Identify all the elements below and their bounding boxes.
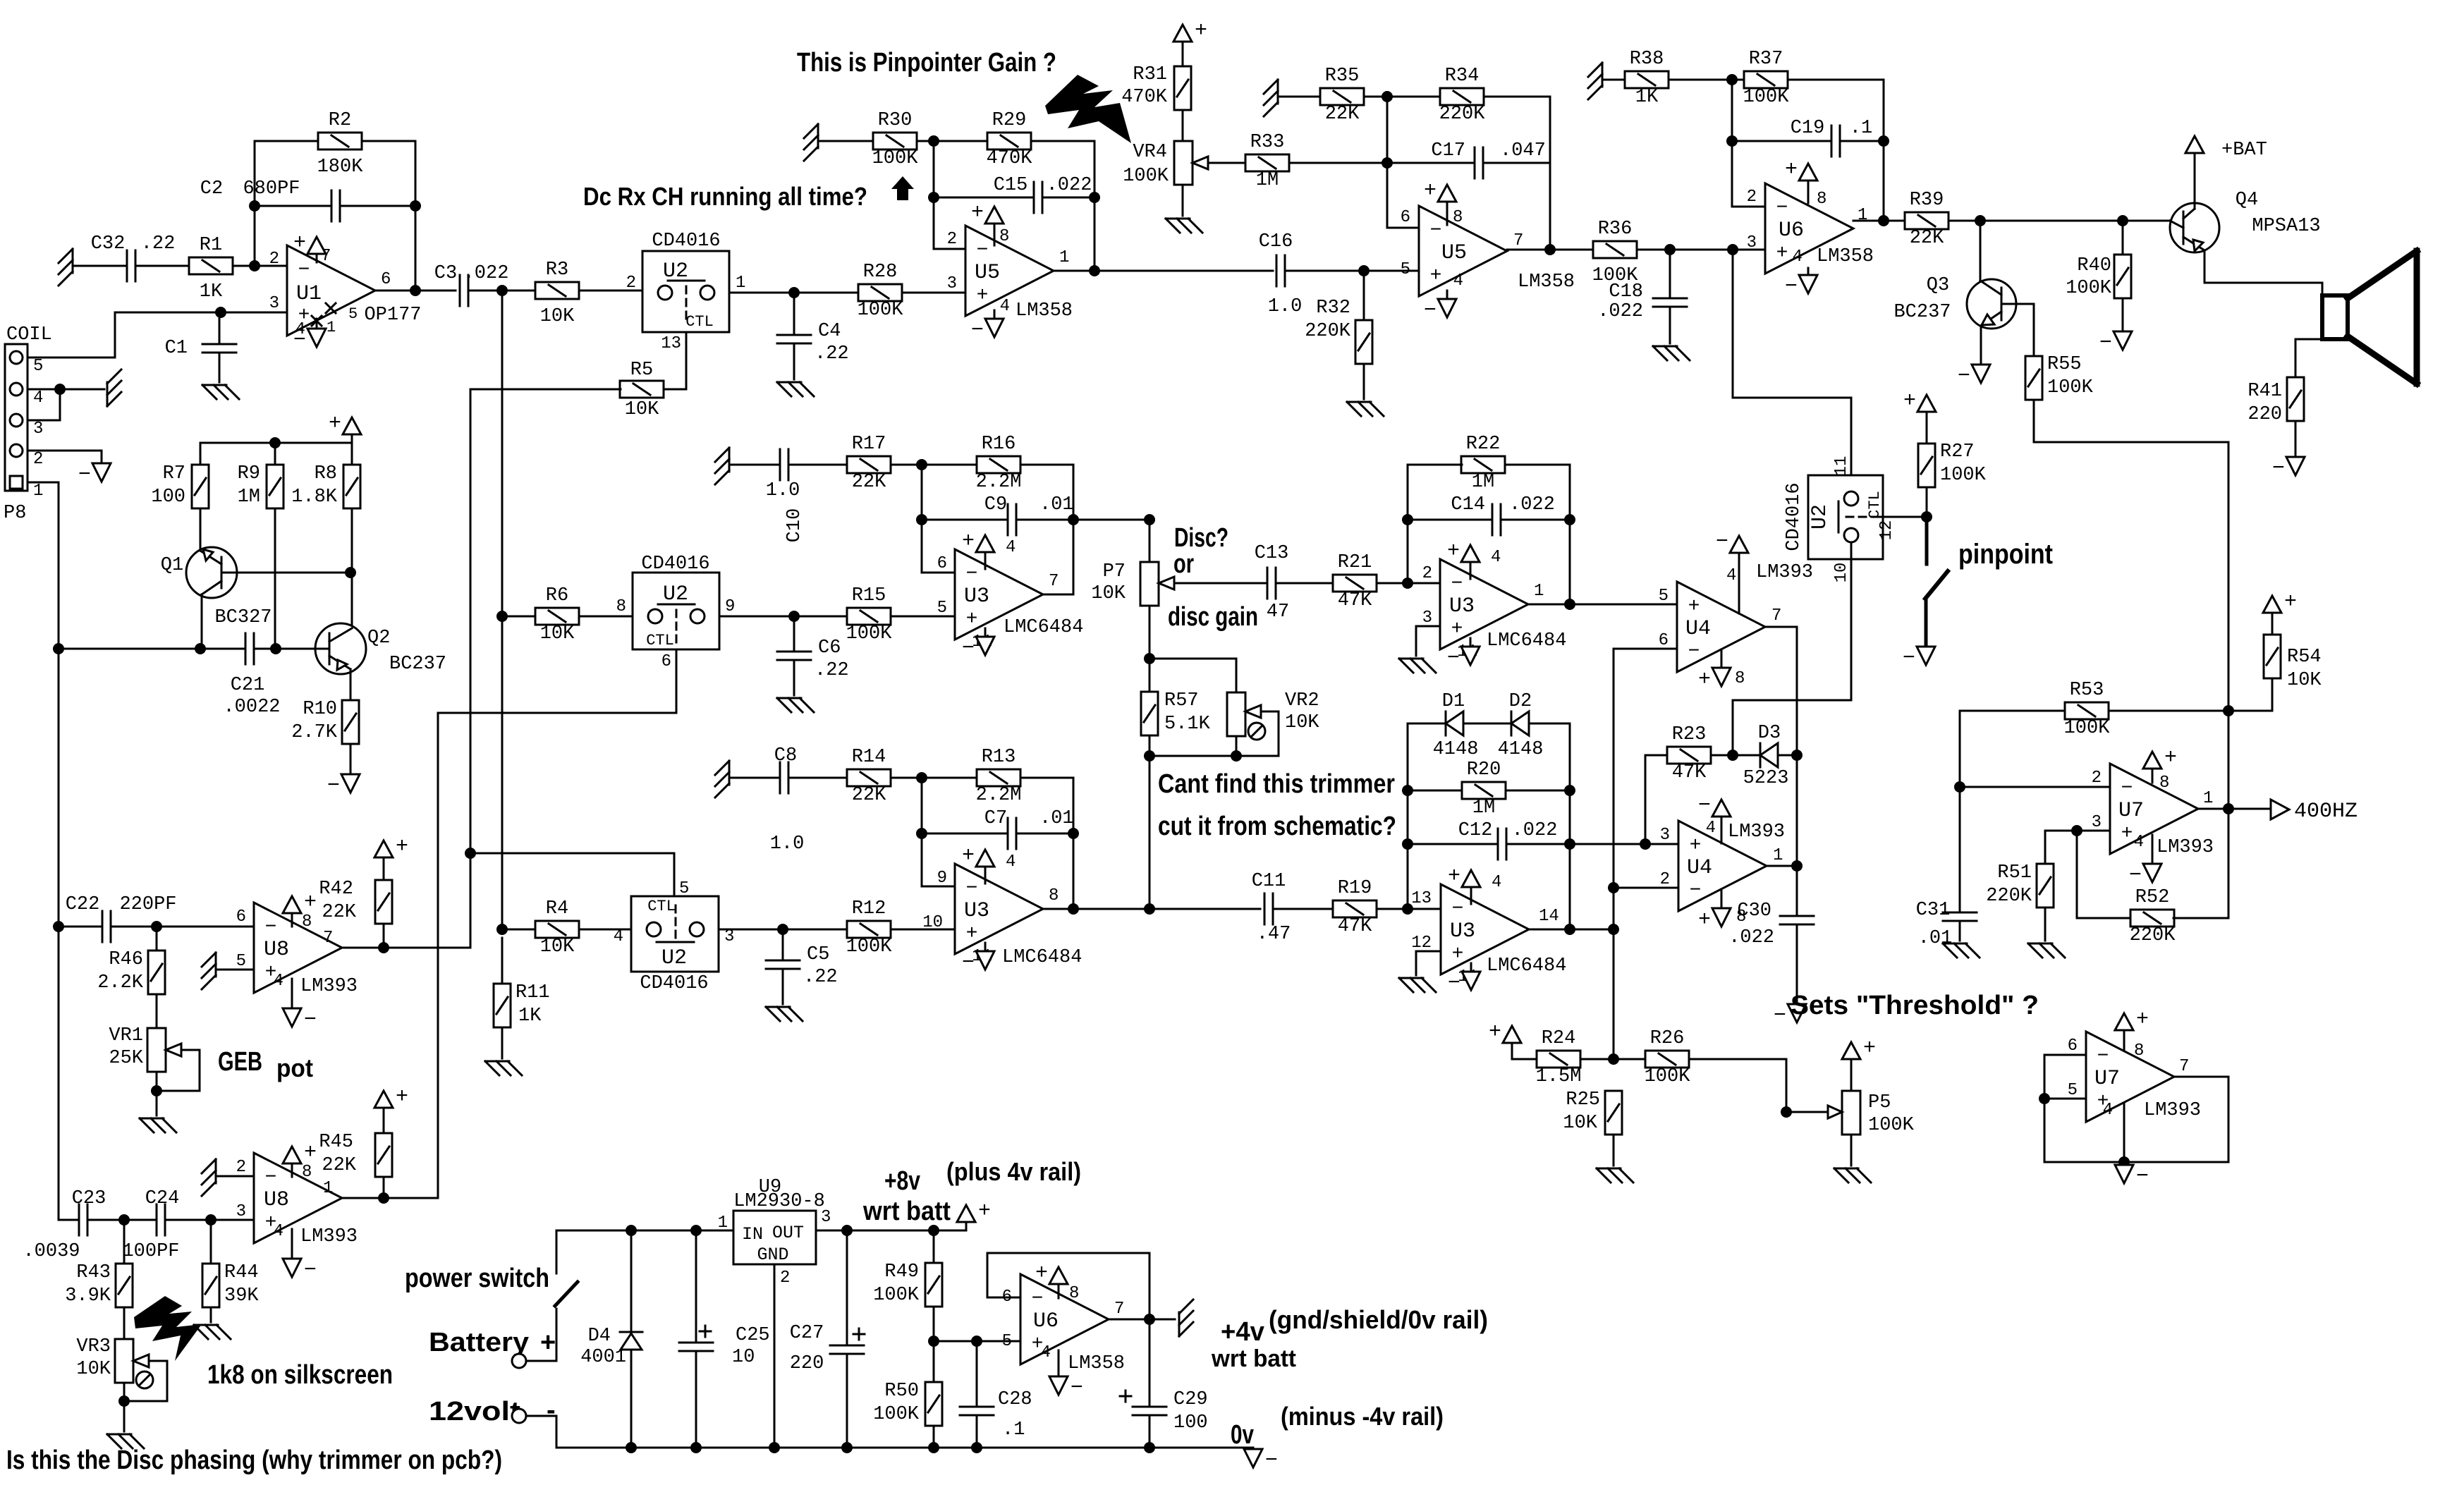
wire R49 bottom lead bbox=[933, 1307, 935, 1341]
svg-text:100K: 100K bbox=[1123, 166, 1169, 187]
svg-text:U6: U6 bbox=[1779, 219, 1804, 243]
svg-text:R12: R12 bbox=[852, 898, 886, 919]
resistor R52 bbox=[2130, 887, 2176, 946]
svg-text:D4: D4 bbox=[588, 1326, 611, 1347]
svg-text:−: − bbox=[1451, 573, 1463, 595]
wire R42 top bbox=[383, 857, 385, 880]
svg-text:R27: R27 bbox=[1940, 441, 1975, 463]
wire D3 to out col bbox=[1778, 754, 1797, 757]
resistor R54 bbox=[2264, 635, 2322, 691]
ground R38 bbox=[1588, 63, 1602, 99]
wire R4 left bbox=[502, 929, 535, 931]
power - U5a bbox=[971, 319, 1004, 343]
wire C1 top bbox=[219, 312, 221, 344]
svg-text:GND: GND bbox=[757, 1245, 788, 1265]
node C18 tap bbox=[1664, 244, 1676, 255]
svg-text:10K: 10K bbox=[76, 1359, 111, 1380]
node ctl rail branch bbox=[465, 848, 476, 859]
wire U7b pin4 stem bbox=[2123, 1104, 2125, 1162]
svg-text:+: + bbox=[966, 923, 978, 945]
svg-text:4: 4 bbox=[1000, 297, 1010, 316]
resistor R10 bbox=[291, 699, 359, 744]
wire switch to rail bbox=[556, 1230, 631, 1273]
wire C18 top bbox=[1669, 250, 1671, 298]
svg-text:5: 5 bbox=[33, 357, 43, 376]
svg-text:C27: C27 bbox=[790, 1323, 824, 1344]
wire U1 pin4 bbox=[316, 319, 318, 329]
power - 0v rail bbox=[1244, 1449, 1278, 1473]
svg-text:8: 8 bbox=[1049, 886, 1059, 905]
svg-text:Q4: Q4 bbox=[2236, 190, 2258, 211]
wire R45 bottom bbox=[383, 1177, 385, 1198]
transistor Q4 MPSA13 bbox=[2170, 190, 2321, 283]
wire base node to Q2 coll bbox=[351, 573, 353, 628]
svg-text:12volt: 12volt bbox=[429, 1397, 520, 1426]
wire R33 to fb node bbox=[1289, 162, 1387, 164]
node C7 left bbox=[916, 828, 927, 839]
ground C31 bbox=[1943, 943, 1980, 958]
annotation 12volt bbox=[429, 1395, 556, 1426]
ground R11 bbox=[485, 1061, 522, 1075]
wire U4b pin8 bbox=[1721, 889, 1723, 908]
svg-text:+: + bbox=[978, 1199, 991, 1223]
svg-text:5: 5 bbox=[2068, 1081, 2078, 1100]
wire R20 left lead bbox=[1408, 790, 1462, 792]
node Q3 coll bbox=[1975, 215, 1986, 226]
wire R46 top bbox=[156, 927, 158, 951]
wire U7b in+ bbox=[2044, 1098, 2086, 1100]
svg-text:D1: D1 bbox=[1442, 691, 1465, 712]
wire C9 right bbox=[1016, 519, 1073, 521]
resistor R7 bbox=[151, 463, 209, 508]
wire D row right bbox=[1529, 723, 1570, 725]
wire U5b in+ wire bbox=[1364, 270, 1419, 272]
svg-text:U3: U3 bbox=[1450, 919, 1475, 943]
op-amp U6 bbox=[1747, 183, 1874, 274]
node VR2 bottom bbox=[1231, 750, 1242, 762]
svg-text:−: − bbox=[1071, 1376, 1083, 1400]
svg-text:−: − bbox=[1774, 1004, 1786, 1028]
svg-text:6: 6 bbox=[2068, 1037, 2078, 1056]
svg-text:C29: C29 bbox=[1173, 1389, 1208, 1410]
node C19 right bbox=[1878, 135, 1889, 147]
svg-text:4: 4 bbox=[1492, 873, 1501, 892]
wire R17 to R16 bbox=[891, 464, 977, 466]
node C25 bottom bbox=[690, 1442, 702, 1453]
svg-text:R42: R42 bbox=[319, 879, 353, 900]
wire U6a pin4 bbox=[1807, 268, 1810, 275]
wire R35 to R34 bbox=[1364, 96, 1440, 98]
wire R39 to Q4 base bbox=[1948, 220, 2170, 222]
wire U3a out bbox=[1043, 594, 1073, 596]
wire R16 right bbox=[1020, 465, 1073, 594]
trimmer VR3 bbox=[76, 1336, 153, 1388]
svg-text:Cant find this trimmer: Cant find this trimmer bbox=[1158, 769, 1395, 799]
wire threshold col x2288 bbox=[1613, 649, 1615, 1059]
resistor R28 bbox=[858, 262, 904, 321]
svg-text:6: 6 bbox=[937, 554, 947, 573]
annotation gnd shield bbox=[1269, 1305, 1488, 1334]
wire R40 bottom bbox=[2122, 298, 2124, 331]
svg-text:+: + bbox=[1489, 1020, 1501, 1044]
svg-text:1: 1 bbox=[33, 482, 43, 501]
wire R43 top bbox=[123, 1220, 126, 1264]
wire R44 bottom bbox=[210, 1307, 212, 1322]
svg-text:1.0: 1.0 bbox=[770, 833, 805, 855]
svg-text:10K: 10K bbox=[1285, 712, 1319, 733]
svg-text:−: − bbox=[1776, 197, 1788, 219]
svg-text:10: 10 bbox=[732, 1347, 755, 1368]
svg-text:.01: .01 bbox=[1039, 808, 1074, 829]
node R35/R34/C17 bbox=[1382, 91, 1393, 102]
svg-text:LM358: LM358 bbox=[1016, 300, 1073, 322]
resistor R49 bbox=[873, 1261, 942, 1307]
wire C31 bottom bbox=[1959, 921, 1961, 941]
trimmer VR4 bbox=[1123, 141, 1208, 187]
capacitor C28 bbox=[960, 1389, 1032, 1441]
svg-text:100K: 100K bbox=[1743, 87, 1790, 108]
node U9 gnd bottom bbox=[769, 1442, 780, 1453]
svg-text:+: + bbox=[2164, 746, 2177, 770]
svg-text:wrt batt: wrt batt bbox=[1211, 1345, 1296, 1372]
svg-text:7: 7 bbox=[1114, 1300, 1124, 1319]
wire COIL pin1 TX rail bbox=[28, 482, 59, 649]
wire C19 left lead bbox=[1732, 140, 1831, 142]
svg-text:R10: R10 bbox=[303, 699, 337, 720]
svg-text:+: + bbox=[396, 835, 408, 859]
svg-text:power switch: power switch bbox=[405, 1264, 549, 1293]
svg-text:4: 4 bbox=[274, 972, 283, 991]
resistor R8 bbox=[291, 463, 360, 508]
ground C32 bbox=[59, 249, 73, 286]
capacitor C23 bbox=[23, 1188, 106, 1262]
resistor R43 bbox=[65, 1262, 133, 1307]
power - U3c bbox=[962, 951, 994, 975]
wire Q4 collector bbox=[2194, 153, 2196, 204]
wire U9 gnd bbox=[774, 1264, 776, 1448]
node R57 top bbox=[1144, 653, 1155, 664]
wire R7 to Q1 bbox=[200, 508, 202, 548]
node R27/pinpoint bbox=[1921, 511, 1932, 522]
wire P5 bottom bbox=[1850, 1135, 1853, 1166]
svg-text:100: 100 bbox=[151, 487, 185, 508]
node C3/R3/feedback bbox=[496, 285, 508, 296]
wire U3d pin4 bbox=[1470, 887, 1472, 904]
capacitor C17 bbox=[1431, 140, 1545, 178]
wire C12 right lead bbox=[1506, 843, 1570, 845]
resistor R35 bbox=[1320, 66, 1364, 125]
svg-text:LMC6484: LMC6484 bbox=[1487, 630, 1566, 652]
wire U4b pin4 bbox=[1721, 817, 1723, 843]
resistor R21 bbox=[1333, 552, 1377, 611]
capacitor C10 bbox=[766, 449, 800, 501]
svg-text:10: 10 bbox=[1832, 563, 1851, 583]
node R17/R16/fbcol bbox=[916, 459, 927, 470]
node TX rail / C22 bbox=[53, 921, 64, 932]
wire U7a pin4 bbox=[2152, 835, 2154, 864]
annotation plus4v bbox=[946, 1157, 1081, 1186]
resistor R30 bbox=[872, 110, 919, 169]
svg-text:C15: C15 bbox=[994, 175, 1028, 196]
svg-text:C22: C22 bbox=[66, 894, 100, 915]
resistor R50 bbox=[873, 1381, 942, 1426]
power + U1 bbox=[293, 231, 326, 255]
svg-text:P5: P5 bbox=[1868, 1092, 1891, 1113]
svg-text:(minus -4v rail): (minus -4v rail) bbox=[1281, 1402, 1444, 1431]
power - U1 bbox=[293, 329, 326, 353]
wire U2a ctl stub bbox=[664, 332, 686, 389]
svg-text:U5: U5 bbox=[975, 261, 1000, 285]
svg-text:R25: R25 bbox=[1566, 1089, 1600, 1111]
svg-text:6: 6 bbox=[1401, 208, 1410, 227]
wire C13 to R21 bbox=[1276, 582, 1333, 585]
capacitor C11 bbox=[1252, 871, 1291, 945]
svg-text:Q3: Q3 bbox=[1927, 275, 1949, 296]
svg-text:2: 2 bbox=[626, 274, 636, 293]
op-amp U8 bbox=[236, 903, 358, 997]
resistor R41 bbox=[2248, 377, 2304, 425]
wire U7a in+ bbox=[2045, 830, 2110, 832]
power + bias bbox=[329, 412, 361, 436]
svg-text:−: − bbox=[327, 774, 340, 798]
wire TX rail down bbox=[58, 649, 60, 927]
wire C17 right bbox=[1483, 162, 1550, 164]
wire R55 to fb rail bbox=[2034, 400, 2228, 711]
svg-text:.01: .01 bbox=[1039, 494, 1074, 515]
wire C19 right lead bbox=[1840, 140, 1884, 142]
wire rail to C22 bbox=[59, 926, 102, 928]
svg-text:+: + bbox=[293, 231, 306, 255]
capacitor C15 bbox=[994, 175, 1092, 213]
wire U2d pin10 down bbox=[1733, 542, 1851, 755]
node C27 top bbox=[841, 1225, 853, 1236]
svg-text:220K: 220K bbox=[1986, 886, 2032, 907]
wire R27 top bbox=[1926, 412, 1928, 444]
svg-text:4148: 4148 bbox=[1433, 739, 1479, 760]
svg-text:R30: R30 bbox=[878, 110, 913, 131]
wire R54 bottom bbox=[2228, 678, 2272, 711]
svg-text:.22: .22 bbox=[141, 233, 176, 255]
svg-text:2: 2 bbox=[33, 450, 43, 469]
node R50 bottom bbox=[928, 1442, 939, 1453]
wire U7b tie down bbox=[2044, 1077, 2228, 1162]
svg-text:3: 3 bbox=[1747, 233, 1757, 252]
svg-text:13: 13 bbox=[1411, 889, 1432, 908]
lightning bolt 2 bbox=[134, 1296, 202, 1361]
power + R24 bbox=[1489, 1020, 1521, 1044]
svg-text:−: − bbox=[298, 259, 310, 281]
resistor R42 bbox=[319, 879, 392, 924]
svg-text:1.0: 1.0 bbox=[766, 480, 800, 501]
svg-text:−: − bbox=[293, 329, 306, 353]
node VR1 bottom bbox=[151, 1085, 162, 1096]
wire U8a pin8 bbox=[291, 913, 293, 927]
svg-text:pinpoint: pinpoint bbox=[1958, 539, 2053, 570]
wire R22 right bbox=[1505, 465, 1570, 604]
wire C14 right lead bbox=[1501, 519, 1570, 521]
wire C27 bottom lead bbox=[846, 1354, 848, 1448]
svg-text:C3: C3 bbox=[434, 263, 457, 284]
ground R35 bbox=[1264, 80, 1278, 116]
svg-text:8: 8 bbox=[302, 1163, 312, 1182]
wire R4 to U2c bbox=[579, 929, 631, 931]
svg-text:C19: C19 bbox=[1791, 118, 1825, 139]
svg-text:Q2: Q2 bbox=[367, 628, 390, 649]
ground P5 bbox=[1834, 1168, 1871, 1182]
wire U8b in- gnd bbox=[216, 1175, 254, 1178]
annotation dcrx bbox=[583, 182, 867, 211]
wire R51 top bbox=[2044, 831, 2047, 864]
svg-text:220: 220 bbox=[790, 1353, 824, 1374]
resistor R39 bbox=[1905, 190, 1948, 249]
wire C9 to P7 bbox=[1073, 519, 1149, 521]
svg-text:BC327: BC327 bbox=[214, 607, 272, 628]
svg-text:P7: P7 bbox=[1103, 561, 1126, 582]
svg-text:2.7K: 2.7K bbox=[291, 722, 338, 743]
node R51/R52/U7a in+ bbox=[2071, 825, 2082, 836]
wire U4a in- bbox=[1614, 648, 1677, 650]
node C9 right bbox=[1068, 514, 1079, 525]
capacitor C21 bbox=[223, 633, 280, 718]
annotation 0v bbox=[1231, 1420, 1254, 1450]
svg-text:47K: 47K bbox=[1672, 762, 1707, 783]
wire C12 left lead bbox=[1408, 843, 1498, 845]
svg-text:VR2: VR2 bbox=[1285, 690, 1319, 711]
svg-text:Sets "Threshold" ?: Sets "Threshold" ? bbox=[1791, 991, 2039, 1020]
svg-text:LMC6484: LMC6484 bbox=[1487, 955, 1566, 977]
svg-text:+: + bbox=[304, 891, 317, 915]
svg-text:−: − bbox=[1785, 275, 1798, 299]
svg-text:−: − bbox=[2099, 331, 2112, 355]
svg-text:470K: 470K bbox=[987, 148, 1033, 169]
node C23/C24/R43 bbox=[118, 1214, 130, 1226]
wire batt- to rail bbox=[526, 1416, 1253, 1448]
power - U7b bbox=[2115, 1165, 2149, 1189]
svg-text:100K: 100K bbox=[872, 148, 919, 169]
resistor R12 bbox=[846, 898, 893, 958]
power - U3a bbox=[962, 637, 994, 661]
wire C23 to C24 bbox=[87, 1219, 157, 1221]
svg-text:8: 8 bbox=[1069, 1284, 1079, 1303]
svg-text:4: 4 bbox=[1006, 853, 1016, 872]
svg-text:LM393: LM393 bbox=[300, 1226, 358, 1247]
power - U7a bbox=[2129, 864, 2161, 888]
svg-text:C28: C28 bbox=[998, 1389, 1032, 1410]
power + P5 bbox=[1842, 1037, 1876, 1061]
svg-text:U8: U8 bbox=[264, 938, 289, 962]
svg-text:5: 5 bbox=[1659, 587, 1669, 606]
label U5a pin3 bbox=[947, 274, 957, 293]
svg-text:+: + bbox=[962, 844, 975, 868]
resistor R44 bbox=[202, 1262, 259, 1307]
power + R27 bbox=[1903, 389, 1936, 413]
wire U5b pin4 bbox=[1446, 291, 1448, 299]
svg-text:U7: U7 bbox=[2094, 1067, 2120, 1091]
power - Q3 bbox=[1958, 365, 1990, 389]
svg-text:6: 6 bbox=[381, 270, 391, 289]
wire R32 bottom bbox=[1363, 364, 1365, 399]
node R49 top bbox=[928, 1225, 939, 1236]
wire U8b pin4 bbox=[291, 1229, 293, 1259]
wire U3d out bbox=[1529, 929, 1614, 931]
svg-text:R35: R35 bbox=[1325, 66, 1360, 87]
svg-text:+: + bbox=[1688, 596, 1700, 618]
wire R57 to VR2 top bbox=[1149, 659, 1236, 692]
ground VR4 bbox=[1166, 219, 1202, 233]
svg-text:+: + bbox=[1451, 618, 1463, 640]
node C15 right bbox=[1089, 192, 1100, 203]
wire bias rail top bbox=[200, 442, 352, 444]
node R49/R50/U6b bbox=[928, 1336, 939, 1347]
svg-text:BC237: BC237 bbox=[1893, 302, 1951, 323]
svg-text:(gnd/shield/0v rail): (gnd/shield/0v rail) bbox=[1269, 1305, 1488, 1334]
svg-text:−: − bbox=[265, 917, 277, 939]
wire R24 to node bbox=[1580, 1058, 1645, 1061]
wire U1 pin7 bbox=[316, 254, 318, 262]
node P5 wiper bbox=[1781, 1106, 1792, 1118]
trimmer VR2 bbox=[1227, 690, 1319, 740]
svg-text:R57: R57 bbox=[1164, 690, 1199, 711]
svg-text:R52: R52 bbox=[2135, 887, 2170, 908]
svg-text:5: 5 bbox=[937, 599, 947, 618]
svg-text:400HZ: 400HZ bbox=[2294, 800, 2358, 824]
wire bias arrow stem bbox=[351, 434, 353, 443]
svg-text:.0039: .0039 bbox=[23, 1241, 80, 1262]
resistor R20 bbox=[1462, 759, 1506, 819]
svg-text:1k8 on silkscreen: 1k8 on silkscreen bbox=[207, 1360, 393, 1390]
wire R42 bottom bbox=[383, 924, 385, 948]
wire U6a fb to U2d p11 bbox=[1733, 250, 1851, 491]
svg-text:R7: R7 bbox=[163, 463, 185, 484]
svg-text:5: 5 bbox=[1002, 1332, 1012, 1351]
resistor R15 bbox=[846, 585, 893, 644]
svg-text:VR1: VR1 bbox=[109, 1025, 143, 1046]
node P7 top bbox=[1144, 514, 1155, 525]
node C12 left bbox=[1402, 838, 1413, 850]
node R20 right bbox=[1564, 785, 1575, 796]
switch power blade bbox=[555, 1282, 578, 1306]
svg-text:C1: C1 bbox=[165, 338, 188, 359]
op-amp U5 bbox=[1401, 206, 1575, 296]
svg-text:C25: C25 bbox=[736, 1325, 770, 1346]
svg-text:C21: C21 bbox=[231, 675, 265, 696]
resistor R25 bbox=[1563, 1089, 1622, 1135]
svg-text:10K: 10K bbox=[1563, 1113, 1597, 1134]
svg-text:25K: 25K bbox=[109, 1048, 143, 1069]
svg-text:R38: R38 bbox=[1630, 49, 1664, 70]
svg-text:5.1K: 5.1K bbox=[1164, 714, 1211, 735]
wire D4 top lead bbox=[630, 1230, 633, 1332]
svg-text:10K: 10K bbox=[540, 306, 575, 327]
node C19 left bbox=[1726, 135, 1738, 147]
diode D1 4148 bbox=[1433, 691, 1479, 760]
svg-text:+: + bbox=[1863, 1037, 1876, 1061]
wire C22 to U8a bbox=[111, 926, 254, 928]
svg-text:470K: 470K bbox=[1121, 87, 1168, 108]
wire R53 right bbox=[2109, 710, 2228, 712]
resistor R26 bbox=[1645, 1028, 1691, 1087]
wire C16 to U5b in+ bbox=[1285, 270, 1419, 272]
svg-text:VR3: VR3 bbox=[76, 1336, 111, 1357]
svg-text:8: 8 bbox=[2159, 774, 2169, 793]
svg-text:R53: R53 bbox=[2070, 680, 2104, 701]
svg-text:8: 8 bbox=[302, 912, 312, 931]
capacitor C2 bbox=[200, 178, 340, 221]
svg-text:−: − bbox=[966, 878, 978, 900]
wire R28 to U5a in+ bbox=[902, 292, 965, 294]
wire U3d pin11 bbox=[1470, 963, 1472, 972]
annotation +8v bbox=[884, 1166, 920, 1196]
